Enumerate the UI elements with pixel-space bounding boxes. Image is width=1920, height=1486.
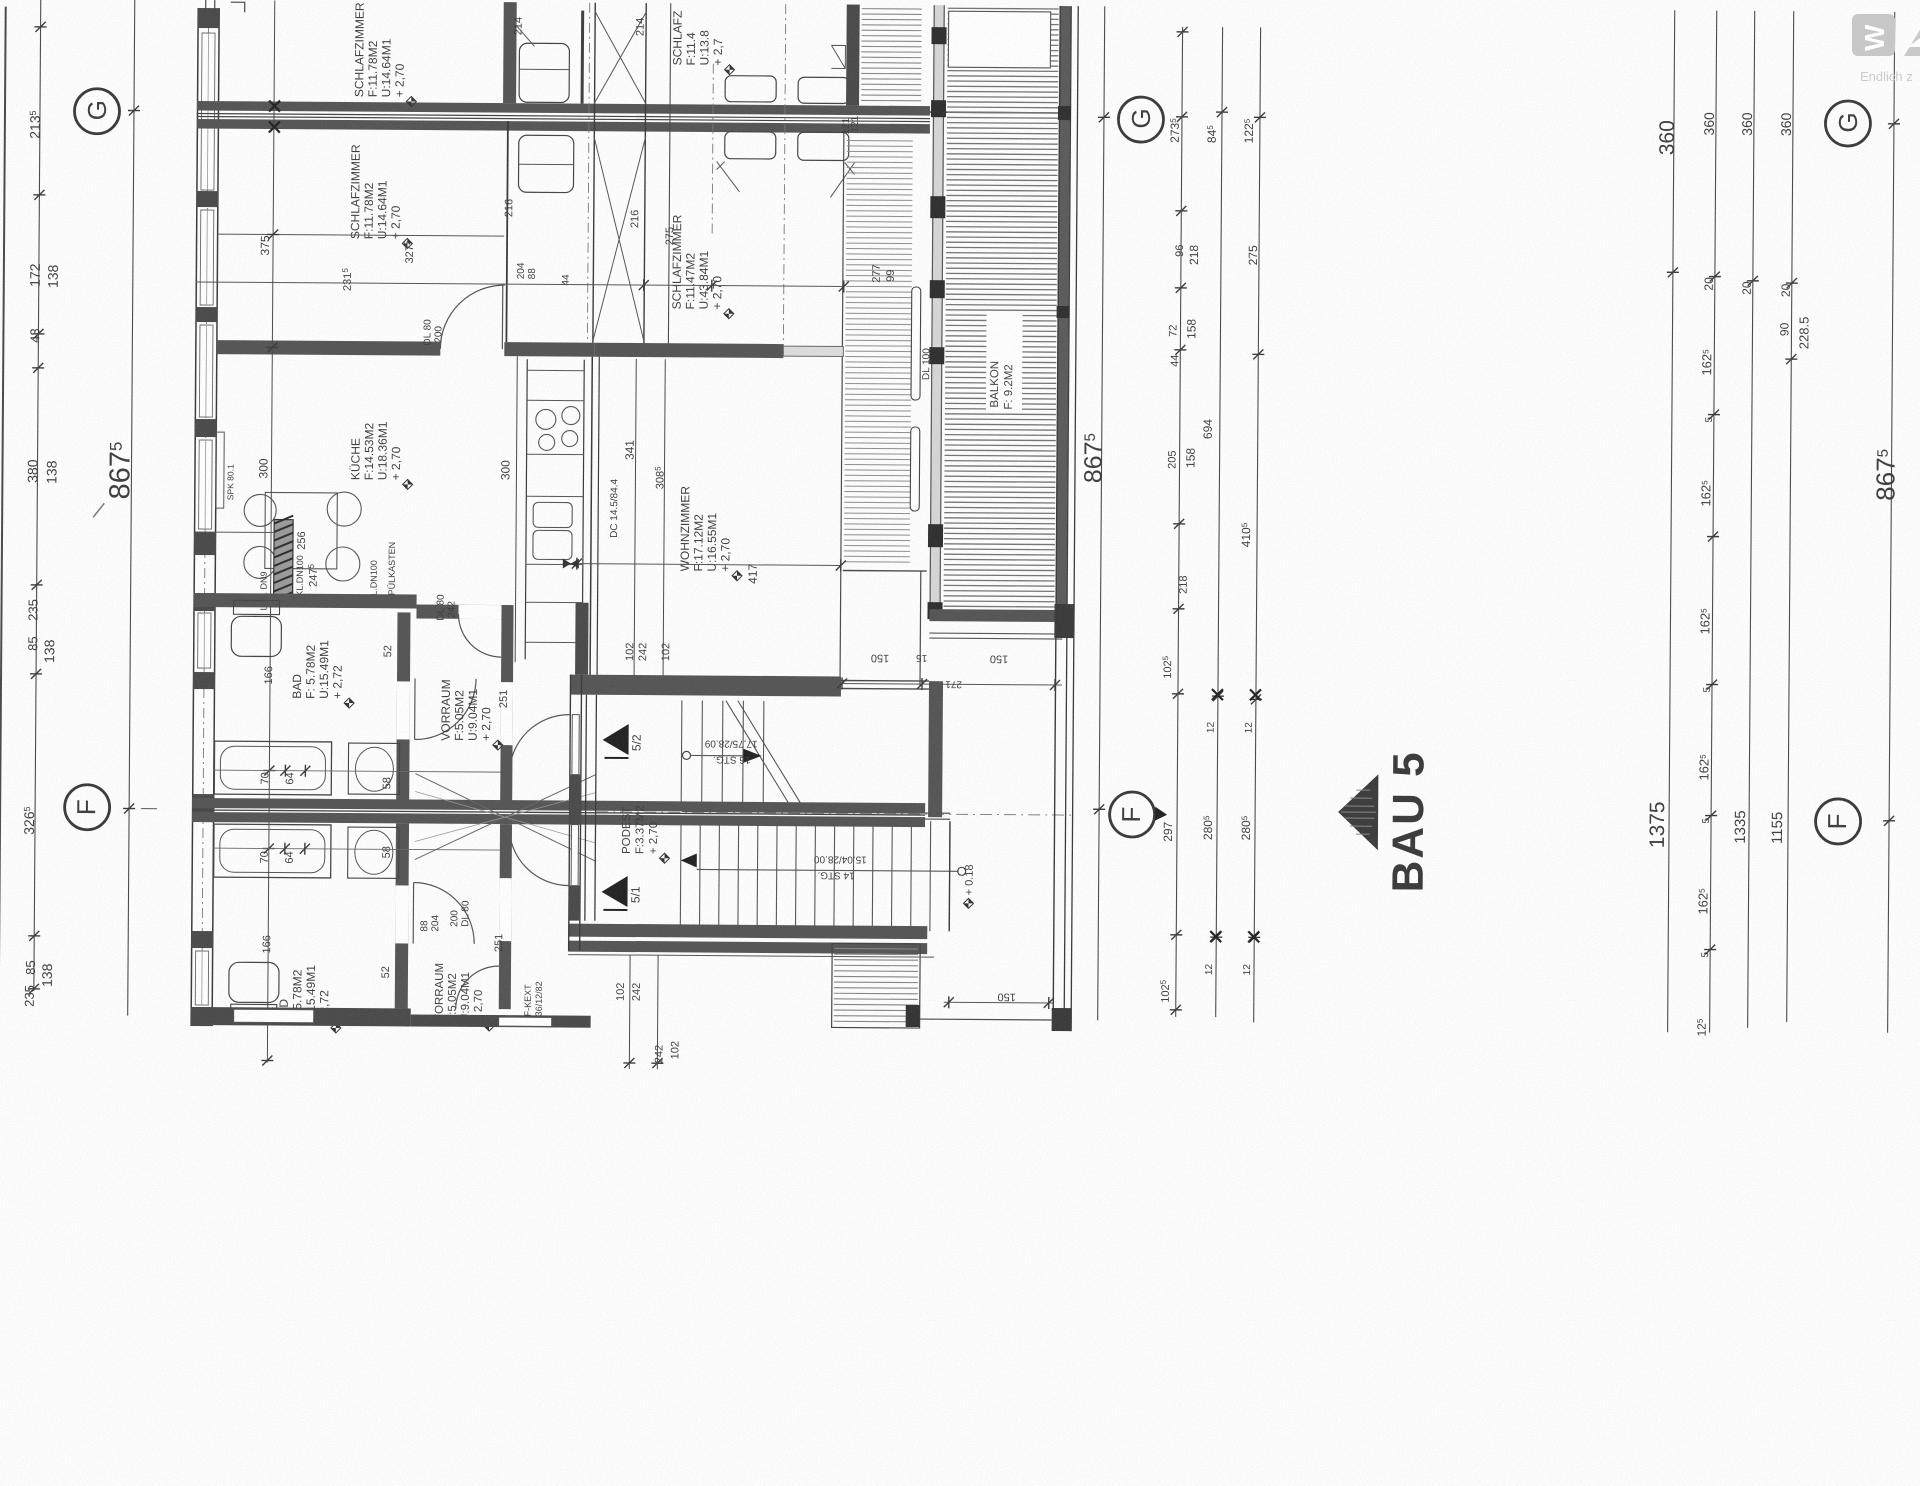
balcony edge line x844 bbox=[840, 123, 844, 690]
right dim line 3 x1754 bbox=[1748, 11, 1755, 1028]
stair hall bottom wall band1 bbox=[568, 924, 927, 940]
apartment marker 5/1 bbox=[601, 876, 627, 907]
axis dash-dot x785 bbox=[783, 4, 785, 349]
lower hatch dark blob bbox=[906, 1005, 920, 1027]
duct column hatched bbox=[274, 520, 294, 600]
right axis line x1894 bbox=[1888, 12, 1895, 1033]
sink bbox=[533, 502, 572, 527]
radiator left wall bbox=[216, 432, 225, 508]
stair hall top wall bbox=[570, 675, 841, 697]
south wall dim ticks below bbox=[628, 955, 631, 1069]
party wall F band 2 bbox=[192, 812, 925, 827]
wall top x582 bbox=[581, 11, 585, 104]
stair upper flight break line bbox=[725, 701, 802, 805]
line x670 with dim 275 bbox=[668, 3, 670, 348]
balcony parapet south bbox=[929, 609, 1062, 622]
balcony door wall piers bbox=[931, 27, 946, 44]
door arc stair-vorraum lower bbox=[509, 825, 569, 885]
party wall G band 2 bbox=[197, 119, 930, 134]
wall balcony top x846 bbox=[846, 5, 860, 106]
shaft wardrobe with X top bbox=[593, 3, 595, 343]
kitchen dim line x519 label 300 bbox=[515, 356, 517, 662]
watermark logo W box bbox=[1852, 14, 1895, 56]
left wall axis dash-dot bbox=[202, 8, 209, 1026]
axis bubble F left bbox=[64, 785, 109, 830]
bed lower nook bbox=[518, 135, 573, 192]
axis dash-dot x713 bbox=[712, 64, 713, 234]
balcony hatch main bbox=[948, 7, 1059, 10]
balcony door wall strip bbox=[929, 5, 944, 615]
stair lower flight arrow bbox=[681, 853, 697, 867]
apartment marker 5/2 bbox=[603, 724, 629, 755]
window segment in north wall bbox=[783, 346, 843, 356]
stair hall left wall bbox=[569, 675, 571, 951]
beds lower-right bedroom bbox=[725, 132, 776, 159]
bathtub upper bbox=[214, 741, 331, 795]
cross X between vorraums bbox=[415, 774, 596, 861]
scan noise overlay bbox=[0, 0, 1, 1]
wall bath-vorraum lower x401 bbox=[395, 823, 409, 1008]
door arc vorraum-kitchen lower bbox=[456, 966, 499, 1009]
living dim line x667 label 308 bbox=[663, 359, 665, 691]
entry dim line y677 bbox=[835, 683, 1062, 685]
parapet dark blobs bbox=[1058, 106, 1071, 120]
wc upper bbox=[233, 600, 279, 614]
party wall F mid line bbox=[192, 810, 925, 815]
stair hall bottom wall band2 bbox=[568, 941, 927, 955]
watermark logo triangle bbox=[1904, 30, 1920, 56]
beds top-right bedroom bbox=[725, 76, 776, 102]
dimension line left chain 1 bbox=[34, 0, 41, 991]
right dim line 4 x1793 bbox=[1787, 11, 1794, 1022]
axis F dash-dot across stair hall bbox=[596, 812, 1073, 815]
wall living-stair west bbox=[575, 603, 589, 675]
door arc vorraum-bath bbox=[415, 679, 476, 740]
line living recess south bbox=[843, 569, 927, 572]
axis bubble F mid bbox=[1109, 792, 1154, 837]
wall kitchen-living north bbox=[216, 340, 440, 356]
balcony hatch top strip bbox=[862, 8, 922, 10]
scan edge line left bbox=[0, 7, 6, 1004]
kitchen east wall bbox=[590, 357, 592, 683]
door arc vorraum-kitchen bbox=[458, 614, 501, 657]
stair lower flight risers bbox=[679, 819, 682, 929]
bau5 triangle bbox=[1338, 774, 1379, 850]
door arc stair-vorraum upper bbox=[509, 714, 569, 774]
lower hatch block bbox=[832, 943, 921, 1028]
wall bath north bbox=[194, 593, 417, 609]
door arc bedroom2 bbox=[440, 285, 504, 349]
axis bubble G left bbox=[74, 89, 119, 134]
left wall windows bbox=[201, 33, 215, 190]
balcony door leaves open bbox=[911, 287, 921, 400]
stair hall inner left wall bbox=[585, 695, 587, 921]
axis bubble F right bbox=[1815, 799, 1860, 844]
party wall G balcony divider line bbox=[930, 111, 1060, 114]
top cut marks bbox=[206, 0, 245, 12]
svg-text:W: W bbox=[1859, 24, 1890, 51]
kitchen dining divider line bbox=[195, 531, 273, 534]
washbasin lower bbox=[348, 827, 399, 878]
stove burners bbox=[536, 409, 556, 429]
bed top nook bbox=[519, 43, 569, 102]
dim line across bedrooms y234 bbox=[217, 234, 504, 236]
party wall G mid line bbox=[197, 113, 930, 118]
svg-text:Endlich z: Endlich z bbox=[1860, 69, 1913, 84]
bottom right corner lines bbox=[920, 1018, 1053, 1021]
mid dim line x1104 bbox=[1098, 6, 1105, 1020]
mid dim line x1222 bbox=[1216, 27, 1223, 1017]
wall bedroom nook top bbox=[503, 2, 517, 103]
south wall windows bbox=[234, 1009, 314, 1023]
wc lower bbox=[229, 962, 279, 1002]
axis line left with G F ticks bbox=[128, 0, 135, 1016]
balcony right parapet bbox=[1055, 6, 1070, 627]
party wall G band 1 bbox=[197, 101, 930, 116]
long dim line x274 through plan bbox=[267, 1, 274, 1063]
wall vorraum east x505 bbox=[500, 605, 513, 801]
wall vorraum east lower x505 bbox=[499, 824, 512, 1009]
right dim line 1 x1674 bbox=[1668, 10, 1675, 1032]
stair upper flight risers bbox=[680, 700, 683, 809]
right dim line 2 x1716 bbox=[1710, 11, 1717, 1033]
party wall F band 1 bbox=[192, 798, 925, 813]
door arc vorraum-bath lower bbox=[413, 883, 474, 944]
left exterior wall lines bbox=[191, 8, 198, 1026]
balcony hatch strip A bbox=[847, 140, 913, 142]
mid dim line x1260 bbox=[1254, 27, 1261, 1022]
lower entry dim 150 bbox=[944, 1001, 1054, 1004]
stair right wall bbox=[928, 681, 943, 817]
stair mid landing lines bbox=[682, 811, 950, 813]
axis bubble G mid bbox=[1118, 97, 1163, 142]
wall bath-vorraum x401 bbox=[396, 612, 410, 800]
bathtub lower bbox=[214, 824, 331, 878]
living dim line x638 label 341 bbox=[634, 359, 636, 691]
south exterior wall bbox=[191, 1007, 411, 1027]
balcony planter box bbox=[948, 11, 1050, 68]
left wall piers bbox=[198, 8, 220, 28]
washbasin upper bbox=[348, 743, 399, 794]
kitchen counter right bbox=[525, 359, 527, 659]
axis bubble G right bbox=[1825, 101, 1870, 146]
balcony label white backing bbox=[986, 311, 1023, 411]
kitchen table and chairs bbox=[265, 492, 338, 569]
stair upper flight arrow bbox=[682, 751, 690, 759]
mid dim line x1182 bbox=[1176, 27, 1183, 1017]
living dim line y561 label 417 bbox=[563, 564, 841, 566]
